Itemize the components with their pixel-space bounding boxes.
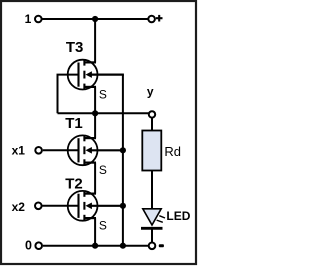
svg-text:LED: LED — [166, 209, 190, 223]
svg-text:T2: T2 — [65, 176, 83, 193]
wire x2 to T2 gate — [42, 205, 77, 207]
svg-text:T3: T3 — [66, 39, 84, 56]
svg-text:Rd: Rd — [164, 144, 181, 159]
wire T1 source to T2 drain — [94, 163, 96, 194]
svg-text:S: S — [99, 218, 107, 232]
svg-text:x1: x1 — [12, 144, 26, 158]
svg-text:y: y — [147, 85, 154, 99]
wire T3 gate loop left — [58, 75, 78, 114]
wire bottom rail — [43, 245, 149, 247]
node junction bottom rail main column — [92, 243, 98, 249]
wire bulk rail — [122, 75, 124, 246]
wire LED to minus terminal — [151, 230, 153, 243]
wire T3 drain — [94, 19, 96, 62]
wire node y horizontal — [58, 112, 149, 114]
node junction bottom rail bulk rail — [120, 243, 126, 249]
wire resistor to LED — [151, 171, 153, 210]
wire T2 source — [94, 218, 96, 246]
wire top rail — [42, 18, 148, 20]
transistor T1 — [68, 135, 123, 165]
node y terminal — [149, 111, 155, 117]
svg-text:S: S — [99, 88, 107, 102]
svg-text:0: 0 — [25, 239, 32, 253]
terminal x2 — [35, 203, 42, 210]
node junction T2 bulk — [120, 203, 126, 209]
wire T1 drain — [94, 113, 96, 138]
svg-text:S: S — [99, 163, 107, 177]
node junction top rail — [92, 16, 98, 22]
label minus — [159, 244, 164, 247]
node junction y line — [92, 110, 98, 116]
resistor Rd — [142, 131, 161, 171]
terminal plus — [148, 16, 155, 23]
terminal 1 — [35, 16, 42, 23]
terminal x1 — [35, 147, 42, 154]
transistor T3 — [68, 60, 124, 90]
LED light rays — [157, 216, 165, 223]
node junction T1 bulk — [120, 147, 126, 153]
wire x1 to T1 gate — [43, 149, 78, 151]
transistor T2 — [68, 191, 123, 221]
wire T3 source — [94, 87, 96, 113]
svg-text:1: 1 — [25, 12, 32, 26]
frame border — [1, 1, 196, 264]
terminal minus — [149, 243, 156, 250]
svg-text:T1: T1 — [65, 115, 83, 132]
LED diode — [141, 209, 163, 229]
terminal 0 — [35, 242, 42, 249]
label plus — [156, 15, 163, 22]
wire y terminal to resistor — [151, 118, 153, 131]
svg-text:x2: x2 — [12, 200, 26, 214]
